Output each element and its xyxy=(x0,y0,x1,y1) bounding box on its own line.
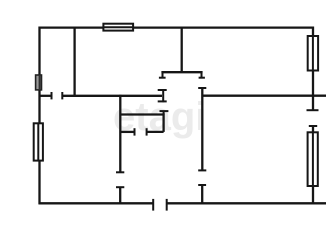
door jamb x51 xyxy=(51,92,53,99)
window W3 left wall xyxy=(34,123,43,160)
hallway left jamb stem xyxy=(162,90,164,103)
hallway tick left stem xyxy=(162,72,164,78)
right wall door jamb lower xyxy=(309,125,317,127)
wall D vertical xyxy=(119,95,121,173)
balcony divider wall xyxy=(202,95,326,97)
wall line through window W5 xyxy=(312,132,314,186)
closet door jamb right xyxy=(146,128,148,135)
closet top-right jamb stem xyxy=(163,111,165,114)
right exterior wall lower xyxy=(312,126,314,204)
interior wall B vertical xyxy=(181,27,183,74)
hallway tick left foot xyxy=(159,77,166,79)
hallway top wall xyxy=(161,71,202,73)
right exterior wall upper xyxy=(312,27,314,111)
shaft W2 left wall xyxy=(36,75,42,90)
window W5 right wall xyxy=(308,132,318,186)
top exterior wall xyxy=(39,26,314,28)
hallway left jamb top cap xyxy=(158,89,167,91)
wall D bottom cap xyxy=(116,171,124,173)
hallway tick right foot xyxy=(199,77,205,79)
watermark etagi xyxy=(113,97,206,137)
bottom exterior wall left segment xyxy=(39,202,154,204)
bottom exterior wall right segment xyxy=(167,202,326,204)
bottom door jamb left xyxy=(152,199,154,211)
door jamb x62 xyxy=(61,92,63,99)
bottom door jamb right xyxy=(166,199,168,211)
window W4 right wall xyxy=(308,36,318,71)
window W1 top wall xyxy=(103,24,133,31)
interior horizontal wall left of door xyxy=(40,95,52,97)
left exterior wall xyxy=(38,27,40,205)
closet top-right jamb cap xyxy=(160,110,169,112)
interior horizontal wall to hallway xyxy=(62,95,162,97)
hallway left jamb bottom cap xyxy=(158,100,167,102)
wall line through shaft W2 xyxy=(39,75,41,90)
wall line through window W4 xyxy=(312,36,314,71)
wall C top cap xyxy=(198,87,206,89)
closet bottom wall left segment xyxy=(120,131,135,133)
interior wall A vertical xyxy=(73,27,75,97)
wall line through window W3 xyxy=(37,123,39,160)
closet bottom wall right segment xyxy=(147,131,164,133)
wall D lower stem xyxy=(119,187,121,203)
wall C lower stem xyxy=(201,185,203,203)
closet top wall xyxy=(120,113,164,115)
wall line through window W1 xyxy=(103,26,133,28)
wall D lower cap xyxy=(116,186,124,188)
hallway tick right stem xyxy=(201,72,203,78)
closet door jamb left xyxy=(134,128,136,135)
wall C lower cap xyxy=(198,184,206,186)
right wall door jamb upper xyxy=(307,109,319,111)
closet right wall xyxy=(162,113,164,131)
wall C bottom cap xyxy=(198,169,206,171)
wall C vertical xyxy=(201,88,203,170)
